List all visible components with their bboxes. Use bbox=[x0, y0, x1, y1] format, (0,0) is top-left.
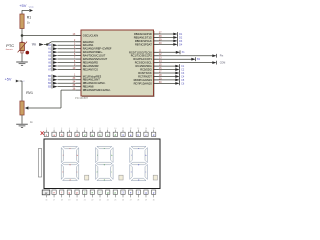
svg-text:17: 17 bbox=[53, 200, 55, 202]
pin pad bottom 16 bbox=[42, 190, 50, 202]
wire R1 bottom lead bbox=[21, 29, 23, 36]
svg-text:15: 15 bbox=[153, 128, 155, 130]
svg-text:RD7/P1D/AN20: RD7/P1D/AN20 bbox=[134, 81, 153, 85]
pin pad bottom 18 bbox=[60, 190, 64, 202]
svg-text:RB4/AN11/P1D: RB4/AN11/P1D bbox=[134, 32, 152, 36]
pin RC3/SCK/SCL (14) right bbox=[135, 60, 226, 65]
terminal Vn bbox=[32, 43, 49, 47]
svg-text:PTC: PTC bbox=[6, 43, 14, 48]
pin RB4/AN11/P1D (37) right bbox=[134, 31, 183, 36]
svg-text:RC2/P1A/CCP1: RC2/P1A/CCP1 bbox=[133, 57, 152, 61]
svg-text:19: 19 bbox=[68, 200, 70, 202]
svg-text:RC7/RX/DT: RC7/RX/DT bbox=[138, 74, 152, 78]
pin pad top 15 bbox=[151, 128, 155, 137]
svg-text:24: 24 bbox=[107, 200, 109, 202]
pin RA4/T0CKI/C1OUT (6) left bbox=[48, 53, 106, 58]
svg-text:RB6/ICSPCLK: RB6/ICSPCLK bbox=[135, 39, 152, 43]
wire RV1 wiper to pin RB3 bbox=[28, 90, 76, 108]
pin pad bottom 25 bbox=[113, 190, 117, 202]
svg-text:22: 22 bbox=[91, 200, 93, 202]
svg-text:RC1/T1OSI/CCP2: RC1/T1OSI/CCP2 bbox=[131, 54, 153, 58]
pin pad top 14 bbox=[144, 128, 148, 137]
wire junction to pin OSC1 bbox=[22, 35, 76, 37]
svg-text:26: 26 bbox=[122, 200, 124, 202]
pin RA2/AN2/VREF-/CVREF (4) left bbox=[48, 46, 112, 51]
pin pad bottom 26 bbox=[121, 190, 125, 202]
pin pad bottom 24 bbox=[106, 190, 110, 202]
pin RC1/T1OSI/CCP2 (12) right bbox=[131, 53, 224, 58]
svg-text:RC3/SCK/SCL: RC3/SCK/SCL bbox=[135, 61, 153, 65]
pin RE2/AN7/CS (10) left bbox=[48, 67, 98, 72]
pin RB2/AN8 (35) left bbox=[48, 84, 94, 89]
7seg digit 3 bbox=[130, 146, 158, 181]
pin pad bottom 17 bbox=[52, 190, 56, 202]
pin RC0/T1OSO/T1CKI (11) right bbox=[129, 50, 185, 55]
svg-text:PIC16F887: PIC16F887 bbox=[75, 96, 89, 100]
svg-text:5: 5 bbox=[77, 128, 78, 130]
pin RA1/AN1 (3) left bbox=[48, 43, 94, 48]
svg-text:RA5/AN4/SS/C2OUT: RA5/AN4/SS/C2OUT bbox=[83, 57, 108, 61]
pin pad top 5 bbox=[75, 128, 79, 137]
pin RC4/SDI/SDA (15) right bbox=[136, 64, 185, 69]
pin RA0/AN0 (2) left bbox=[74, 39, 94, 44]
svg-text:VCC: VCC bbox=[29, 6, 34, 9]
svg-text:RC4/SDI/SDA: RC4/SDI/SDA bbox=[136, 64, 153, 68]
pin RB6/ICSPCLK (39) right bbox=[135, 38, 183, 43]
svg-text:RB2/AN8: RB2/AN8 bbox=[83, 85, 94, 89]
svg-text:RV1: RV1 bbox=[26, 91, 33, 95]
display module DS1 (3-digit 7-segment) bbox=[38, 139, 160, 189]
pin RB5/AN13/T1G (38) right bbox=[134, 35, 183, 40]
pin RA3/AN3/VREF+ (5) left bbox=[48, 50, 103, 55]
svg-text:RA4/T0CKI/C1OUT: RA4/T0CKI/C1OUT bbox=[83, 54, 106, 58]
svg-text:13: 13 bbox=[137, 128, 139, 130]
svg-text:RE1/AN6/WR: RE1/AN6/WR bbox=[83, 64, 99, 68]
svg-text:VCC: VCC bbox=[20, 81, 25, 83]
pin pad bottom 20 bbox=[75, 190, 79, 202]
svg-text:R1: R1 bbox=[27, 16, 31, 20]
pin pad top 3 bbox=[60, 128, 64, 137]
pin pad top 12 bbox=[129, 128, 133, 137]
7seg digit 1 bbox=[61, 146, 89, 181]
svg-text:23: 23 bbox=[99, 200, 101, 202]
pin RE0/AN5/RD (8) left bbox=[48, 60, 98, 65]
svg-text:Vn: Vn bbox=[32, 43, 36, 47]
svg-text:14: 14 bbox=[145, 128, 147, 130]
pin pad bottom 27 bbox=[129, 190, 133, 202]
pin RC5/SDO (16) right bbox=[140, 67, 185, 72]
svg-text:3: 3 bbox=[61, 128, 62, 130]
svg-text:RB7/ICSPDAT: RB7/ICSPDAT bbox=[135, 42, 152, 46]
pin RD6/P1C/AN19 (29) right bbox=[134, 77, 185, 82]
marker pin1 (red cross) bbox=[41, 131, 44, 134]
svg-text:RC5/SDO: RC5/SDO bbox=[140, 68, 152, 72]
pin RC7/RX/DT (18) right bbox=[138, 74, 185, 79]
svg-text:RA2/AN2/VREF-/CVREF: RA2/AN2/VREF-/CVREF bbox=[83, 47, 112, 51]
svg-text:25: 25 bbox=[114, 200, 116, 202]
svg-text:+5V: +5V bbox=[5, 77, 12, 81]
pin MCLR/Vpp/RE3 (1) left bbox=[48, 74, 102, 79]
ground (under RV1) bbox=[16, 124, 28, 127]
svg-text:11: 11 bbox=[122, 128, 124, 130]
svg-text:RC6/TX/CK: RC6/TX/CK bbox=[138, 71, 152, 75]
thermistor PTC bbox=[6, 36, 29, 62]
svg-text:OSC1/CLKIN: OSC1/CLKIN bbox=[83, 33, 99, 37]
pin pad top 8 bbox=[98, 128, 102, 137]
svg-text:12: 12 bbox=[130, 128, 132, 130]
pin pad top 1 bbox=[44, 128, 48, 137]
svg-text:RA1/AN1: RA1/AN1 bbox=[83, 43, 94, 47]
pin pad bottom 19 bbox=[67, 190, 71, 202]
svg-text:9: 9 bbox=[107, 128, 108, 130]
svg-text:RE2/AN7/CS: RE2/AN7/CS bbox=[83, 67, 98, 71]
svg-text:1: 1 bbox=[46, 128, 47, 130]
pin pad bottom 21 bbox=[83, 190, 87, 202]
pin RB3/AN9/PGM/C12IN2- (36) left bbox=[73, 88, 111, 93]
svg-text:7: 7 bbox=[92, 128, 93, 130]
pin pad bottom 29 bbox=[144, 190, 148, 202]
svg-text:27: 27 bbox=[130, 200, 132, 202]
pin RC6/TX/CK (17) right bbox=[138, 70, 185, 75]
svg-text:RA3/AN3/VREF+: RA3/AN3/VREF+ bbox=[83, 50, 103, 54]
pin pad bottom 22 bbox=[90, 190, 94, 202]
svg-text:RB0/AN12/INT: RB0/AN12/INT bbox=[83, 78, 101, 82]
svg-text:RA0/AN0: RA0/AN0 bbox=[83, 40, 94, 44]
svg-text:10: 10 bbox=[114, 128, 116, 130]
svg-text:RB3/AN9/PGM/C12IN2-: RB3/AN9/PGM/C12IN2- bbox=[83, 88, 111, 92]
pin RC2/P1A/CCP1 (13) right bbox=[133, 57, 200, 62]
pin RB7/ICSPDAT (40) right bbox=[135, 42, 183, 47]
svg-text:28: 28 bbox=[137, 200, 139, 202]
svg-text:RB1/AN10/C12IN3-: RB1/AN10/C12IN3- bbox=[83, 81, 106, 85]
pin RE1/AN6/WR (9) left bbox=[48, 63, 99, 68]
svg-text:4: 4 bbox=[69, 128, 70, 130]
svg-text:RE0/AN5/RD: RE0/AN5/RD bbox=[83, 60, 98, 64]
pin pad top 4 bbox=[67, 128, 71, 137]
pin pad top 2 bbox=[52, 128, 56, 137]
svg-text:RC0/T1OSO/T1CKI: RC0/T1OSO/T1CKI bbox=[129, 50, 152, 54]
svg-text:2: 2 bbox=[54, 128, 55, 130]
svg-text:+5V: +5V bbox=[19, 3, 27, 8]
pin pad top 10 bbox=[113, 128, 117, 137]
svg-text:1k: 1k bbox=[27, 21, 31, 25]
svg-text:20: 20 bbox=[76, 200, 78, 202]
pin pad bottom 30 bbox=[151, 190, 155, 202]
pin RB1/AN10/C12IN3- (34) left bbox=[48, 81, 105, 86]
svg-text:21: 21 bbox=[84, 200, 86, 202]
pin pad top 13 bbox=[136, 128, 140, 137]
pin pad top 7 bbox=[90, 128, 94, 137]
pin RD7/P1D/AN20 (30) right bbox=[134, 81, 185, 86]
microcontroller U1 PIC16F887 bbox=[75, 30, 155, 100]
svg-text:29: 29 bbox=[145, 200, 147, 202]
svg-text:30: 30 bbox=[153, 200, 155, 202]
power terminal +5V (above RV1) bbox=[5, 77, 26, 101]
svg-text:COM: COM bbox=[220, 62, 226, 65]
pin pad bottom 23 bbox=[98, 190, 102, 202]
svg-text:8: 8 bbox=[100, 128, 101, 130]
pin pad top 9 bbox=[106, 128, 110, 137]
pin pad bottom 28 bbox=[136, 190, 140, 202]
svg-text:MCLR/Vpp/RE3: MCLR/Vpp/RE3 bbox=[83, 74, 102, 78]
wire RV1 bottom lead bbox=[21, 115, 23, 124]
pin pad top 11 bbox=[121, 128, 125, 137]
svg-text:6: 6 bbox=[84, 128, 85, 130]
7seg digit 2 bbox=[96, 146, 124, 181]
svg-text:RD6/P1C/AN19: RD6/P1C/AN19 bbox=[134, 78, 153, 82]
power terminal +5V (top) bbox=[19, 3, 34, 14]
pin RB0/AN12/INT (33) left bbox=[48, 77, 100, 82]
svg-text:RB5/AN13/T1G: RB5/AN13/T1G bbox=[134, 35, 152, 39]
svg-text:18: 18 bbox=[61, 200, 63, 202]
pin OSC1/CLKIN (13) left bbox=[73, 33, 99, 38]
wire Vn to pin RA0 bbox=[47, 42, 76, 45]
svg-text:thermis: thermis bbox=[6, 48, 13, 51]
pin pad top 6 bbox=[83, 128, 87, 137]
potentiometer RV1 bbox=[20, 91, 33, 124]
pin RA5/AN4/SS/C2OUT (7) left bbox=[48, 56, 108, 61]
ground (under PTC) bbox=[16, 62, 28, 65]
svg-text:16: 16 bbox=[45, 200, 47, 202]
resistor R1 bbox=[20, 14, 31, 29]
node R1/PTC junction bbox=[21, 34, 24, 37]
